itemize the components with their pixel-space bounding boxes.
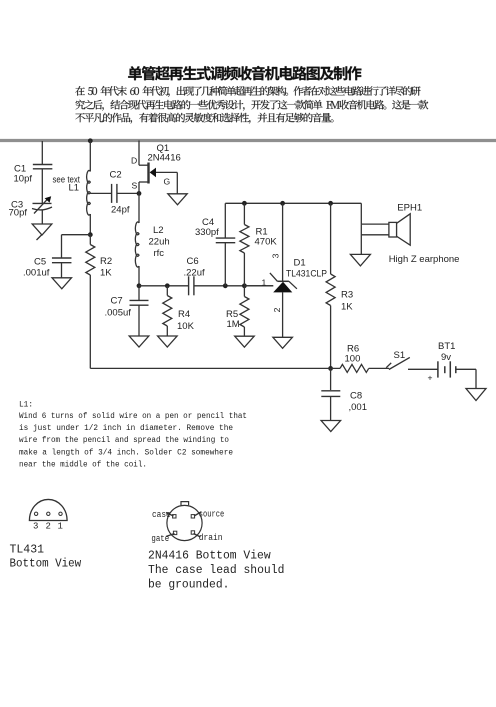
svg-text:1: 1 [262,278,267,288]
svg-text:C8: C8 [350,391,362,402]
svg-text:.001uf: .001uf [23,268,50,279]
node dot rail/L1 [88,138,93,143]
svg-text:2: 2 [272,307,282,312]
svg-text:1M: 1M [227,319,240,330]
capacitor C8 .001 [330,368,332,390]
TL431 pin circles [34,512,37,515]
wire L2 to bottom node [138,266,140,286]
svg-text:L1:: L1: [19,400,33,410]
node dot source [137,191,142,196]
capacitor C5 [52,257,71,259]
node dot L2/C7 junction [137,283,142,288]
svg-text:drain: drain [199,533,223,543]
capacitor C1 [33,164,53,166]
inductor L1 [87,170,91,215]
svg-text:.22uf: .22uf [184,267,205,278]
ground below C3 [32,224,52,235]
node dot R1/R5 junction [242,283,247,288]
node dot R1 top [242,201,247,206]
transistor Q1 2N4416 JFET [139,164,148,166]
capacitor C7 [138,286,140,300]
node dot D1 top [280,201,285,206]
wire switch to battery [408,368,438,370]
resistor R6 100 [340,364,369,372]
svg-text:3: 3 [33,522,38,532]
svg-text:S1: S1 [394,350,406,361]
TL431 bottom view outline [29,499,67,520]
svg-text:Wind 6 turns of solid wire on: Wind 6 turns of solid wire on a pen or p… [19,411,247,421]
2N4416 bottom view circle [167,505,202,540]
capacitor C4 330pf [224,243,226,286]
wire R6 to switch [369,367,389,369]
node dot L1/R2/C5 [88,232,93,237]
diode D1 TL431CLP [282,203,284,281]
svg-text:C6: C6 [187,256,199,267]
svg-text:10pf: 10pf [14,174,33,185]
svg-text:.005uf: .005uf [105,308,132,319]
2N4416 pin labels with leaders [166,513,174,517]
resistor R1 470K [243,203,245,224]
node dot bottom rail/R3/C8 [328,366,333,371]
svg-text:22uh: 22uh [149,237,170,248]
svg-text:70pf: 70pf [9,208,28,219]
capacitor C2 [111,184,113,203]
svg-text:TL431CLP: TL431CLP [286,269,327,280]
inductor L2 22uh rfc [135,222,139,267]
svg-text:2N4416: 2N4416 [148,153,181,164]
wire C2 to source node [117,192,139,194]
ground below gate [168,194,187,205]
svg-text:10K: 10K [177,321,195,332]
svg-text:3: 3 [271,253,281,258]
wire top to earphone [360,203,362,224]
svg-text:case: case [152,510,171,520]
ground below earphone [350,254,370,266]
ground below R4 [158,336,178,347]
earphone EPH1 [389,222,397,237]
svg-text:BT1: BT1 [438,341,455,352]
wire C1 branch from rail [41,141,43,164]
wire rail to L1 [89,141,91,172]
svg-text:+: + [428,373,433,383]
svg-text:100: 100 [345,354,361,365]
svg-text:L2: L2 [153,225,164,236]
intro paragraph [75,86,428,124]
svg-text:gate: gate [151,534,169,544]
wire C5 to ground [61,263,63,278]
2N4416 tab [181,502,189,506]
node dot R3 top [328,201,333,206]
capacitor C3 variable [33,202,52,204]
wire battery to ground [456,368,476,370]
svg-text:make a length of 3/4 inch. So: make a length of 3/4 inch. Solder C2 som… [19,448,233,458]
svg-text:Bottom View: Bottom View [10,558,82,571]
ground below D1 [273,337,293,348]
switch S1 [386,363,391,368]
svg-text:L1: L1 [69,183,80,194]
svg-text:C7: C7 [111,296,123,307]
bottom rail wire [90,367,340,369]
wire node to D1 ref [244,285,273,287]
wire source node to L2 [138,193,140,223]
resistor R4 10K [166,286,168,296]
svg-text:R3: R3 [341,290,353,301]
svg-text:R4: R4 [178,309,190,320]
resistor R5 1M [243,286,245,297]
wire L1 to node [89,214,91,235]
svg-text:near the middle of the coil.: near the middle of the coil. [19,460,147,470]
ground below C8 [321,421,341,432]
node dot R4 junction [165,283,170,288]
svg-text:D: D [131,156,137,166]
top rail wire [0,139,496,142]
ground below R5 [235,336,255,347]
resistor R3 1K [330,203,332,274]
top wire C4 to speaker [225,202,361,204]
svg-text:is just under 1/2 inch in diam: is just under 1/2 inch in diameter. Remo… [19,423,233,433]
svg-text:24pf: 24pf [111,205,130,216]
svg-text:R2: R2 [100,256,112,267]
svg-text:,001: ,001 [349,402,368,413]
battery BT1 9v [437,361,439,377]
svg-text:2: 2 [46,522,51,532]
wire bottom mid right segment [194,285,273,287]
wire bottom mid left segment [139,285,189,287]
wire L1 tap to C2 [90,192,111,194]
svg-text:be grounded.: be grounded. [148,578,229,591]
node dot C4 bottom [223,283,228,288]
wire to C5 [62,234,91,236]
svg-text:9v: 9v [441,352,451,363]
wire C1 to C3 [41,169,43,203]
svg-text:G: G [164,177,171,187]
svg-text:C5: C5 [34,257,46,268]
svg-text:1K: 1K [100,268,112,279]
2N4416 pins [173,515,176,518]
resistor R2 [89,235,91,245]
svg-text:The case lead should: The case lead should [148,564,284,577]
ground battery [466,389,486,401]
svg-text:D1: D1 [294,258,306,269]
svg-text:470K: 470K [255,237,278,248]
svg-text:rfc: rfc [154,248,165,259]
svg-text:TL431: TL431 [10,544,45,557]
svg-text:2N4416 Bottom View: 2N4416 Bottom View [148,550,271,563]
svg-text:1: 1 [58,522,63,532]
wire drain from rail [138,141,140,166]
svg-text:C2: C2 [110,170,122,181]
svg-text:1K: 1K [341,302,353,313]
wire R2 to bottom rail [89,275,91,368]
ground below C5 [52,278,72,289]
svg-text:330pf: 330pf [195,227,219,238]
svg-text:S: S [132,181,138,191]
svg-text:High Z earphone: High Z earphone [389,254,460,265]
ground below C7 [129,336,149,347]
svg-text:wire from the pencil and sprea: wire from the pencil and spread the wind… [19,435,229,445]
svg-text:source: source [199,509,224,519]
capacitor C6 .22uf [188,276,190,295]
svg-text:EPH1: EPH1 [397,203,422,214]
title 单管超再生式调频收音机电路图及制作 [128,66,361,80]
wire C3 to ground [41,211,43,225]
